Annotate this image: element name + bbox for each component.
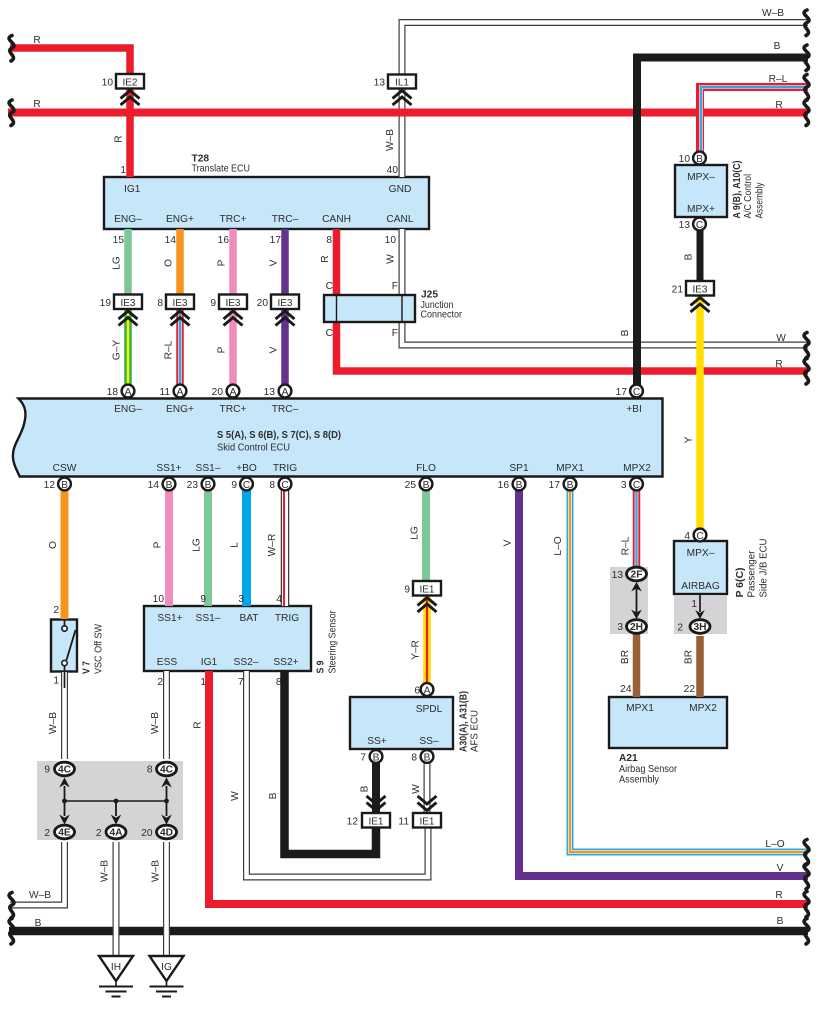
svg-text:2: 2 [157, 677, 163, 688]
svg-text:Connector: Connector [421, 310, 463, 321]
label S9 steering sensor [316, 610, 339, 674]
svg-text:3H: 3H [693, 622, 706, 633]
node B pin 8 AFS SS- [421, 750, 434, 763]
svg-text:R: R [114, 135, 125, 142]
svg-text:2: 2 [53, 605, 59, 616]
svg-text:CANH: CANH [322, 214, 351, 225]
break symbol right R CANH [804, 359, 809, 385]
node C pin 4 P6 MPX- [694, 529, 707, 542]
connector IE3 pin 21 [686, 281, 714, 312]
svg-text:20: 20 [257, 298, 269, 309]
svg-text:7: 7 [238, 677, 244, 688]
svg-text:V: V [269, 259, 280, 266]
svg-text:S 5(A), S 6(B), S 7(C), S 8(D): S 5(A), S 6(B), S 7(C), S 8(D) [217, 430, 341, 441]
svg-text:R: R [33, 35, 40, 46]
svg-text:MPX2: MPX2 [623, 463, 651, 474]
svg-text:IE2: IE2 [122, 78, 137, 89]
label V7 VSC off switch [53, 605, 104, 687]
svg-text:P 6(C): P 6(C) [735, 568, 746, 598]
break symbol right W [804, 333, 809, 359]
svg-text:A: A [177, 387, 184, 398]
node C pin 3 skid MPX2 [630, 478, 643, 491]
svg-text:R–L: R–L [769, 74, 788, 85]
svg-text:10: 10 [153, 594, 165, 605]
svg-text:LG: LG [112, 256, 123, 270]
svg-text:B: B [166, 480, 173, 491]
svg-text:10: 10 [679, 154, 691, 165]
svg-text:IE3: IE3 [120, 298, 135, 309]
wire Y-R from IE1 9 to AFS pin 6 [423, 595, 431, 683]
svg-text:BR: BR [620, 650, 631, 664]
svg-text:W–B: W–B [385, 129, 396, 151]
svg-text:C: C [696, 220, 703, 231]
svg-text:L–O: L–O [553, 536, 564, 555]
svg-text:R: R [775, 100, 782, 111]
break symbol right W-B [804, 10, 809, 36]
svg-text:W–B: W–B [151, 860, 162, 882]
wire B S9 SS2+ loop to IE1 12 [285, 671, 377, 854]
wire colour labels top area [112, 129, 695, 444]
svg-text:2F: 2F [631, 570, 643, 581]
svg-text:15: 15 [113, 235, 125, 246]
svg-text:AFS ECU: AFS ECU [470, 710, 481, 752]
node B pin 12 skid CSW [58, 478, 71, 491]
svg-text:B: B [567, 480, 574, 491]
svg-text:O: O [48, 541, 59, 549]
connector IE1 pin 11 [413, 796, 441, 828]
break symbol right R [804, 100, 809, 126]
svg-text:9: 9 [404, 585, 410, 596]
svg-text:Assembly: Assembly [619, 775, 660, 786]
wire O T28 ENG+ [176, 229, 184, 295]
arrow up into 4C pin 8 [161, 778, 172, 802]
node B pin 10 A/C MPX- [693, 152, 706, 165]
label J25 [421, 290, 463, 321]
svg-text:8: 8 [411, 753, 417, 764]
S9 pin numbers [153, 594, 283, 688]
svg-text:R–L: R–L [621, 536, 632, 555]
connector IE3 pin 9 [219, 295, 247, 326]
svg-text:TRC+: TRC+ [220, 214, 247, 225]
svg-text:B: B [61, 480, 68, 491]
svg-text:9: 9 [210, 298, 216, 309]
wire V below IE3 20 [281, 309, 289, 385]
svg-text:Steering Sensor: Steering Sensor [328, 610, 339, 674]
svg-text:10: 10 [385, 235, 397, 246]
svg-text:1: 1 [691, 599, 697, 610]
svg-text:3: 3 [617, 622, 623, 633]
svg-text:SS1+: SS1+ [157, 613, 182, 624]
oval connector 4C pin 8 [157, 762, 177, 776]
junction line and dots in relay block [62, 799, 169, 804]
edge labels left [29, 35, 51, 929]
svg-text:17: 17 [270, 235, 282, 246]
svg-text:F: F [392, 328, 398, 339]
connector IE3 pin 19 [114, 295, 142, 326]
svg-text:IG1: IG1 [124, 184, 141, 195]
svg-text:Y: Y [684, 436, 695, 443]
break symbol left R main [9, 100, 14, 126]
break symbol right R-L [804, 75, 809, 101]
connector IE3 pin 20 [271, 295, 299, 326]
svg-text:V: V [777, 863, 784, 874]
connector IE2 pin 10 [116, 74, 144, 105]
wire colour labels bottom area [48, 650, 695, 882]
svg-text:21: 21 [672, 285, 684, 296]
svg-text:B: B [777, 916, 784, 927]
svg-text:3: 3 [238, 594, 244, 605]
svg-text:A 9(B), A10(C): A 9(B), A10(C) [732, 161, 743, 219]
break symbol left R top [9, 36, 14, 62]
svg-text:25: 25 [405, 480, 417, 491]
svg-text:B: B [373, 753, 380, 764]
svg-text:W–B: W–B [762, 8, 784, 19]
svg-text:8: 8 [326, 235, 332, 246]
svg-text:LG: LG [410, 526, 421, 540]
svg-text:MPX–: MPX– [687, 548, 715, 559]
svg-text:SPDL: SPDL [416, 704, 443, 715]
svg-text:13: 13 [374, 78, 386, 89]
connector IE3 pin 8 [166, 295, 194, 326]
svg-text:TRC–: TRC– [272, 214, 299, 225]
node C pin 17 skid +BI [630, 385, 643, 398]
VSC off switch V7 box [51, 620, 77, 672]
svg-text:Airbag Sensor: Airbag Sensor [619, 764, 678, 775]
break symbol right V [804, 864, 809, 890]
node A pin 13 skid TRC- [279, 385, 292, 398]
svg-text:SS1–: SS1– [196, 613, 221, 624]
IE3 row pin numbers [100, 298, 269, 309]
svg-text:MPX–: MPX– [687, 172, 715, 183]
wire W-B from 4E down and left to edge [10, 842, 65, 905]
svg-text:P: P [217, 259, 228, 266]
svg-text:B: B [620, 329, 631, 336]
svg-text:IE3: IE3 [225, 298, 240, 309]
switch contacts V7 [62, 620, 76, 688]
oval connector 2F pin 13 [627, 567, 647, 581]
svg-text:40: 40 [387, 165, 399, 176]
node B pin 25 skid FLO [420, 478, 433, 491]
svg-text:C: C [633, 480, 640, 491]
svg-text:P: P [217, 346, 228, 353]
svg-text:G–Y: G–Y [112, 340, 123, 361]
svg-text:P: P [153, 541, 164, 548]
svg-text:O: O [164, 259, 175, 267]
node B pin 7 AFS SS+ [370, 750, 383, 763]
svg-text:IH: IH [111, 962, 121, 973]
wire W-B from 4D to ground IG [163, 842, 170, 956]
svg-text:4C: 4C [58, 765, 72, 776]
svg-text:SP1: SP1 [509, 463, 529, 474]
svg-text:J25: J25 [421, 290, 438, 301]
svg-text:18: 18 [107, 387, 119, 398]
node C pin 9 skid +BO [240, 478, 253, 491]
svg-text:SS1+: SS1+ [156, 463, 181, 474]
svg-text:AIRBAG: AIRBAG [681, 581, 720, 592]
svg-text:W: W [411, 784, 422, 794]
svg-text:F: F [392, 281, 398, 292]
svg-text:4D: 4D [160, 828, 173, 839]
svg-text:20: 20 [212, 387, 224, 398]
svg-text:W–R: W–R [267, 534, 278, 557]
T28 inner pin names [114, 184, 414, 225]
svg-text:L: L [230, 542, 241, 548]
connector IL1 pin 13 [388, 75, 416, 106]
svg-text:FLO: FLO [416, 463, 436, 474]
wire R upper-left to IE2 [10, 48, 130, 177]
svg-text:R: R [320, 255, 331, 262]
label skid control ECU [217, 430, 341, 454]
svg-text:A: A [125, 387, 132, 398]
svg-text:MPX+: MPX+ [687, 204, 715, 215]
wire B from right edge down to skid +BI [637, 58, 808, 386]
svg-text:4: 4 [684, 531, 690, 542]
svg-text:9: 9 [200, 594, 206, 605]
2F 2H 3H pin numbers [612, 570, 684, 634]
svg-text:A/C Control: A/C Control [743, 174, 754, 219]
svg-text:A: A [230, 387, 237, 398]
AFS ECU box [350, 697, 453, 749]
wire W AFS SS- to IE1 11 [424, 763, 431, 813]
wire R from CANH through J25 to right edge [337, 229, 809, 371]
wire LG skid FLO to IE1 9 [422, 490, 430, 581]
arrow down into 4D [161, 802, 172, 825]
wire L-O skid MPX1 down and right to edge [570, 490, 808, 852]
svg-text:2: 2 [677, 623, 683, 634]
arrow down into 4A [111, 802, 122, 825]
svg-text:V: V [503, 539, 514, 546]
A/C control assembly box [675, 165, 727, 217]
svg-text:W: W [386, 254, 397, 264]
svg-text:V: V [269, 346, 280, 353]
svg-text:4C: 4C [160, 765, 174, 776]
svg-text:8: 8 [269, 480, 275, 491]
svg-text:IE1: IE1 [419, 817, 434, 828]
svg-text:TRIG: TRIG [273, 463, 297, 474]
svg-text:16: 16 [218, 235, 230, 246]
svg-text:MPX1: MPX1 [626, 703, 654, 714]
oval connector 4A pin 2 [106, 825, 126, 839]
svg-text:SS2+: SS2+ [273, 657, 298, 668]
svg-text:16: 16 [498, 480, 510, 491]
svg-text:1: 1 [200, 677, 206, 688]
side J/B ECU P6 box [674, 541, 727, 594]
svg-text:20: 20 [141, 828, 153, 839]
wire P skid SS1+ to S9 [165, 490, 173, 606]
skid inner pin names [53, 404, 652, 474]
relay block pin numbers [44, 765, 153, 840]
svg-text:Translate ECU: Translate ECU [192, 164, 251, 175]
wire V T28 TRC- [281, 229, 289, 295]
svg-text:R: R [33, 99, 40, 110]
svg-text:13: 13 [612, 570, 624, 581]
svg-text:B: B [696, 154, 703, 165]
svg-text:14: 14 [165, 235, 177, 246]
svg-text:2: 2 [44, 828, 50, 839]
svg-text:IE3: IE3 [172, 298, 187, 309]
svg-text:W: W [776, 333, 786, 344]
svg-text:+BI: +BI [626, 404, 642, 415]
wire W-B S9 ESS to 4C [163, 671, 170, 759]
shaded block around 2F/2H [610, 567, 648, 634]
connector IE1 pin 12 [362, 796, 390, 828]
svg-text:4A: 4A [109, 828, 123, 839]
svg-text:11: 11 [398, 817, 409, 828]
svg-text:B: B [516, 480, 523, 491]
label AFS ECU [459, 691, 481, 752]
svg-text:19: 19 [100, 298, 112, 309]
svg-text:W–B: W–B [48, 712, 59, 734]
svg-text:Y–R: Y–R [411, 640, 422, 660]
node A pin 18 skid ENG- [122, 385, 135, 398]
svg-text:Assembly: Assembly [755, 182, 766, 219]
svg-text:Passenger: Passenger [747, 550, 758, 598]
wire Y from IE3 21 down to P6 pin 4 [696, 295, 704, 529]
svg-text:23: 23 [187, 480, 199, 491]
svg-text:BAT: BAT [239, 613, 258, 624]
junction connector J25 [324, 295, 415, 322]
J25 pin letters [326, 281, 398, 339]
svg-text:13: 13 [264, 387, 276, 398]
svg-text:R–L: R–L [164, 340, 175, 359]
ground IG [150, 956, 184, 997]
break symbol right L-O [804, 840, 809, 866]
svg-text:24: 24 [620, 684, 632, 695]
svg-text:C: C [281, 480, 288, 491]
svg-text:Skid Control ECU: Skid Control ECU [217, 443, 290, 454]
svg-text:SS+: SS+ [367, 736, 387, 747]
svg-text:1: 1 [120, 165, 126, 176]
svg-text:W–B: W–B [29, 890, 51, 901]
svg-text:B: B [423, 480, 430, 491]
wire W-B from 4A to ground IH [113, 842, 120, 956]
svg-text:1: 1 [53, 676, 59, 687]
svg-text:13: 13 [679, 220, 691, 231]
node A pin 11 skid ENG+ [174, 385, 187, 398]
svg-text:2H: 2H [630, 622, 643, 633]
svg-text:TRC–: TRC– [272, 404, 299, 415]
label P6 side J/B ECU [681, 531, 769, 610]
svg-text:TRIG: TRIG [275, 613, 299, 624]
svg-text:22: 22 [684, 684, 696, 695]
svg-text:R: R [775, 890, 782, 901]
svg-text:14: 14 [148, 480, 160, 491]
svg-text:12: 12 [44, 480, 56, 491]
node B pin 16 skid SP1 [513, 478, 526, 491]
svg-text:IE3: IE3 [277, 298, 292, 309]
svg-text:8: 8 [157, 298, 163, 309]
wire LG skid SS1- to S9 [204, 490, 212, 606]
ECU T28 box [104, 177, 429, 229]
svg-text:B: B [35, 918, 42, 929]
wire BR 3H to A21 MPX2 [696, 636, 704, 697]
svg-text:CSW: CSW [53, 463, 77, 474]
wire BR 2H to A21 MPX1 [633, 633, 641, 697]
node B pin 17 skid MPX1 [564, 478, 577, 491]
wire R S9 IG1 down and right to edge [209, 671, 808, 904]
svg-text:B: B [360, 785, 371, 792]
node C pin 13 A/C MPX+ [693, 218, 706, 231]
svg-text:A30(A), A31(B): A30(A), A31(B) [459, 691, 470, 752]
svg-text:A: A [424, 686, 431, 697]
svg-text:ENG+: ENG+ [166, 214, 194, 225]
svg-text:Side J/B ECU: Side J/B ECU [759, 539, 770, 598]
svg-text:R: R [193, 721, 204, 728]
svg-text:ENG–: ENG– [114, 214, 142, 225]
svg-text:VSC Off SW: VSC Off SW [94, 624, 105, 674]
break symbol right B bottom [804, 919, 809, 945]
svg-text:10: 10 [102, 78, 114, 89]
oval connector 3H pin 2 [690, 620, 710, 634]
svg-text:B: B [268, 792, 279, 799]
svg-text:V 7: V 7 [82, 661, 93, 674]
wire G-Y below IE3 19 [124, 309, 132, 385]
svg-text:IE1: IE1 [368, 817, 383, 828]
wire L skid +BO to S9 BAT [242, 490, 251, 606]
skid top pin numbers [107, 387, 628, 398]
svg-text:C: C [326, 281, 333, 292]
svg-text:C: C [243, 480, 250, 491]
AFS pin numbers and names [347, 585, 443, 828]
svg-text:C: C [326, 328, 333, 339]
wire W S9 SS2- loop to IE1 11 [247, 671, 429, 877]
connector pin numbers top [102, 78, 386, 89]
arrow down into 4E [59, 802, 70, 825]
svg-text:11: 11 [159, 387, 170, 398]
wire P below IE3 9 [229, 309, 237, 385]
svg-text:ENG–: ENG– [114, 404, 142, 415]
connector IE1 pin 9 [413, 581, 441, 612]
wire R-L below IE3 8 [176, 309, 184, 385]
wire O skid CSW to V7 [61, 490, 69, 619]
svg-text:12: 12 [347, 817, 359, 828]
wire R-L skid MPX2 to 2F [633, 490, 641, 567]
wire B from A/C pin 13 to IE3 21 [697, 230, 704, 281]
svg-text:8: 8 [276, 677, 282, 688]
svg-text:B: B [774, 41, 781, 52]
label T28 [192, 154, 251, 175]
wire R main horizontal bus [8, 109, 808, 117]
break symbol left B [9, 919, 14, 945]
wire B AFS SS+ to IE1 12 [372, 763, 380, 813]
wire W-R skid TRIG to S9 TRIG [284, 490, 285, 606]
break symbol right B [804, 45, 809, 71]
edge labels right [762, 8, 788, 927]
svg-text:TRC+: TRC+ [220, 404, 247, 415]
svg-text:CANL: CANL [386, 214, 414, 225]
wire LG T28 ENG- [124, 229, 132, 295]
svg-text:A: A [282, 387, 289, 398]
ground IH [99, 956, 133, 997]
svg-text:+BO: +BO [236, 463, 257, 474]
svg-text:A21: A21 [619, 753, 638, 764]
svg-text:9: 9 [44, 765, 50, 776]
oval connector 2H pin 3 [627, 620, 647, 634]
node B pin 14 skid SS1+ [163, 478, 176, 491]
wire V skid SP1 down and right to edge [519, 490, 808, 876]
break symbol right R bottom [804, 892, 809, 918]
wire W-B V7 pin1 to 4C [61, 672, 68, 759]
steering sensor S9 box [144, 606, 311, 671]
S9 inner pin names [157, 613, 299, 668]
T28 pin numbers [113, 165, 399, 246]
svg-text:SS2–: SS2– [234, 657, 259, 668]
svg-text:S 9: S 9 [316, 660, 327, 673]
svg-text:IE1: IE1 [419, 585, 434, 596]
svg-text:17: 17 [616, 387, 628, 398]
svg-text:MPX1: MPX1 [556, 463, 584, 474]
svg-text:2: 2 [96, 828, 102, 839]
